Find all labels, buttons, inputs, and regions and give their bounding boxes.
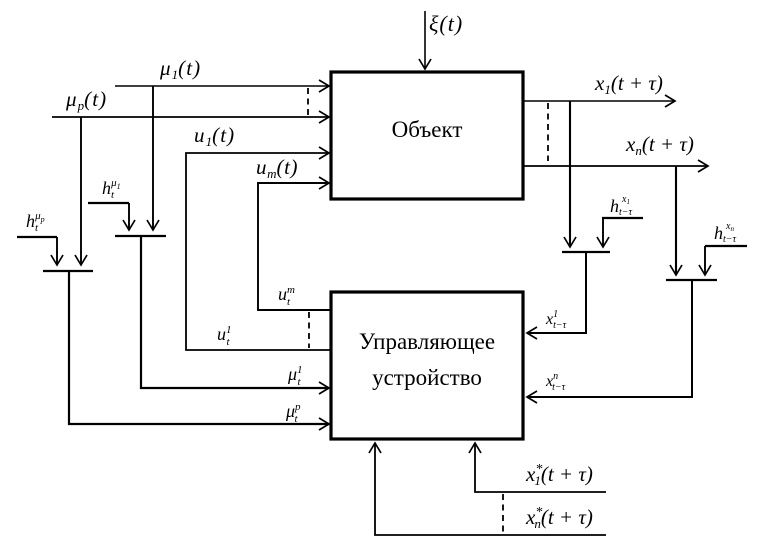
- svg-text:umt: umt: [278, 284, 295, 308]
- svg-text:t−τ: t−τ: [619, 207, 633, 218]
- svg-text:x1t−τ: x1t−τ: [545, 309, 567, 331]
- svg-text:xn(t + τ): xn(t + τ): [625, 132, 694, 158]
- svg-text:h: h: [714, 223, 723, 243]
- svg-text:Объект: Объект: [392, 117, 463, 142]
- svg-text:u1t: u1t: [217, 324, 232, 348]
- svg-text:um(t): um(t): [256, 155, 298, 181]
- svg-text:x1: x1: [621, 194, 630, 206]
- svg-text:htμ1: htμ1: [102, 177, 121, 201]
- svg-text:ξ(t): ξ(t): [429, 11, 463, 36]
- svg-text:h: h: [610, 196, 619, 216]
- svg-text:t−τ: t−τ: [723, 234, 737, 245]
- svg-text:xn: xn: [725, 221, 734, 233]
- svg-text:xnt−τ: xnt−τ: [545, 371, 566, 393]
- svg-text:μ1t: μ1t: [287, 364, 303, 388]
- svg-text:x1(t + τ): x1(t + τ): [594, 71, 663, 97]
- svg-text:устройство: устройство: [372, 365, 482, 390]
- svg-text:μpt: μpt: [285, 401, 301, 425]
- svg-text:Управляющее: Управляющее: [359, 329, 495, 354]
- svg-text:μp(t): μp(t): [65, 87, 107, 113]
- svg-text:u1(t): u1(t): [194, 123, 235, 149]
- svg-text:x*1(t + τ): x*1(t + τ): [525, 462, 593, 488]
- svg-text:μ1(t): μ1(t): [159, 56, 201, 82]
- svg-text:x*n(t + τ): x*n(t + τ): [525, 505, 593, 531]
- svg-text:htμp: htμp: [26, 210, 45, 234]
